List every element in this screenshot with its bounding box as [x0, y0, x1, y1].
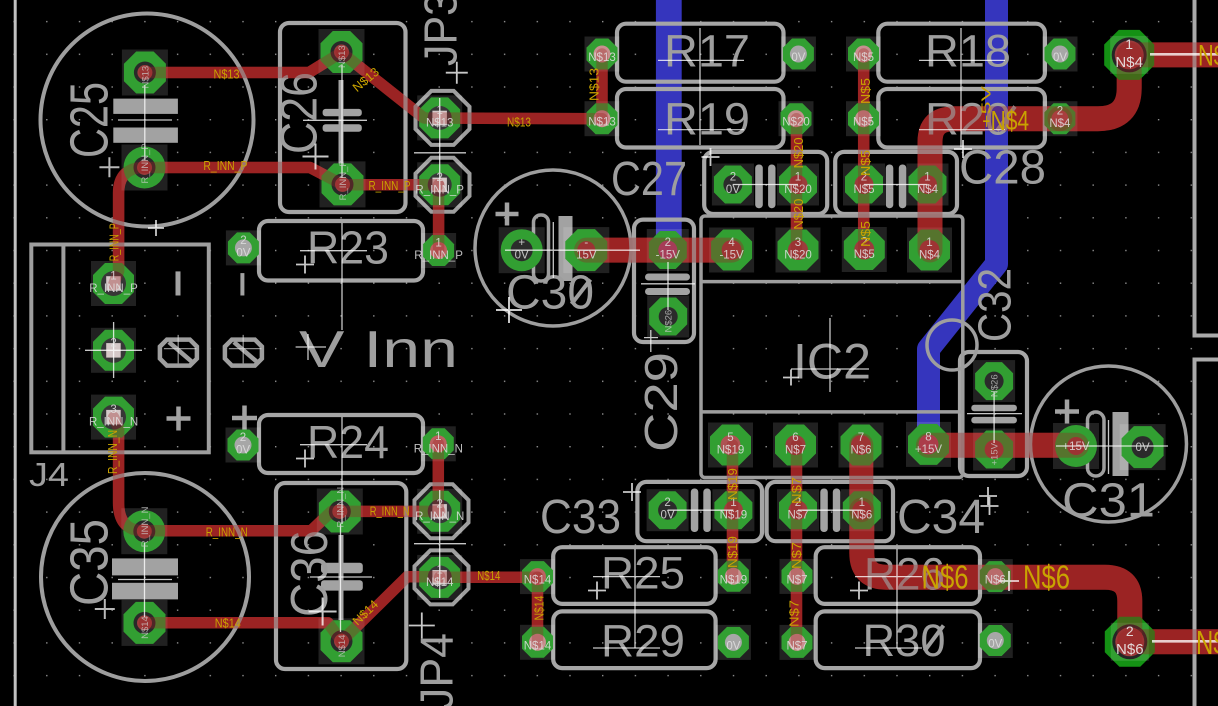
- svg-text:N$14: N$14: [337, 635, 348, 658]
- pad C28 pin2: [843, 164, 885, 206]
- R26 hairline: [855, 549, 922, 648]
- pad IC2 pin7: [839, 423, 884, 468]
- svg-text:N$13: N$13: [588, 52, 616, 64]
- pad R26 pin1: [780, 559, 815, 594]
- svg-text:C31: C31: [1062, 475, 1155, 528]
- svg-text:3: 3: [795, 237, 801, 249]
- svg-text:V Inn: V Inn: [299, 321, 458, 379]
- C33 origin cross: [623, 483, 641, 501]
- C30 text cross: [496, 297, 522, 323]
- JP3 pin2 octagon outline: [416, 158, 470, 212]
- resistor R17 outline: [617, 24, 784, 82]
- C26 crosshair: [303, 65, 367, 178]
- pad J4 pin1: [91, 261, 136, 306]
- C25 origin cross: [99, 157, 119, 177]
- pad C35 pin1: [121, 508, 167, 554]
- pad 2 N$6: [1105, 617, 1155, 667]
- svg-text:R_INN_N: R_INN_N: [140, 506, 151, 547]
- label pad J4.1: [89, 271, 138, 296]
- svg-text:N$6: N$6: [1196, 624, 1218, 661]
- svg-text:2: 2: [665, 237, 671, 249]
- slash of C30 zero: [572, 280, 591, 305]
- svg-text:N$4: N$4: [991, 105, 1030, 136]
- capacitor C29 outline: [634, 220, 694, 342]
- blue trace +5V to IC2.8: [929, 0, 997, 444]
- svg-text:N$13: N$13: [588, 117, 616, 129]
- R19 hairline: [658, 129, 744, 131]
- wire R_INN_P C25.2 to J4.1: [114, 168, 145, 285]
- svg-text:N$4: N$4: [917, 184, 939, 196]
- C33 capacitor symbol: [691, 489, 699, 533]
- pad C31 pin2: [1120, 424, 1166, 470]
- label pad C27.2: [726, 172, 740, 197]
- svg-text:N$6: N$6: [850, 445, 871, 457]
- pad C35 pin2: [122, 600, 168, 646]
- pad IC2 pin3: [776, 228, 821, 273]
- via R23 pin2: [226, 230, 261, 265]
- svg-text:2: 2: [240, 432, 246, 444]
- svg-text:0V: 0V: [1053, 52, 1067, 64]
- svg-text:1: 1: [110, 271, 116, 283]
- R30 hairline: [855, 647, 922, 649]
- svg-text:N$14: N$14: [533, 595, 547, 620]
- J4 origin cross: [148, 220, 164, 236]
- label pad C28.1: [917, 172, 939, 197]
- svg-text:N$14: N$14: [524, 575, 552, 587]
- label pad C31.2: [1136, 442, 1150, 454]
- label pad IC2.6: [785, 432, 806, 457]
- svg-text:N$6: N$6: [985, 575, 1006, 587]
- wire N$4 big pad to R20.2: [1060, 55, 1129, 119]
- C34 capacitor symbol: [820, 489, 828, 533]
- pad C34 pin2: [777, 489, 819, 531]
- svg-text:N$14: N$14: [426, 577, 454, 589]
- svg-text:N$19: N$19: [717, 445, 745, 457]
- svg-text:N$6: N$6: [1116, 641, 1144, 658]
- label pad C28.2: [853, 172, 874, 197]
- V Inn text cross: [296, 334, 326, 360]
- pad R26 pin2: [978, 559, 1013, 594]
- label pad R18.1: [853, 52, 874, 64]
- svg-text:R_INN_P: R_INN_P: [414, 250, 463, 262]
- svg-text:C35: C35: [60, 519, 120, 606]
- resistor R30 outline: [816, 611, 980, 668]
- pad C26 pin2: [320, 161, 366, 207]
- svg-text:C36: C36: [281, 530, 339, 617]
- resistor R24 outline: [259, 415, 423, 473]
- capacitor C34 outline: [767, 482, 893, 541]
- pad C32 pin1: [973, 429, 1015, 471]
- C34 origin cross: [979, 487, 997, 505]
- pad IC2 pin5: [708, 423, 753, 468]
- svg-text:R_INN_N: R_INN_N: [206, 526, 248, 540]
- wire R_INN_P JP3.2 to R23.1: [433, 185, 445, 251]
- J4 crosshair: [85, 322, 142, 378]
- label pad R17.1: [588, 52, 616, 64]
- svg-text:1: 1: [926, 237, 932, 249]
- blue trace to C29.2: [656, 0, 682, 250]
- svg-text:0V: 0V: [988, 639, 1002, 651]
- pad C36 pin1: [317, 489, 363, 535]
- pad IC2 pin4: [709, 228, 754, 273]
- label pad C34.1: [851, 497, 872, 522]
- pad C28 pin1: [907, 164, 949, 206]
- svg-text:1: 1: [436, 105, 442, 117]
- pad C25 pin1: [122, 50, 168, 96]
- capacitor C31 circle: [1031, 366, 1187, 522]
- svg-text:N$13: N$13: [426, 117, 454, 129]
- svg-text:5: 5: [727, 432, 733, 444]
- pad R23 pin1: [421, 233, 456, 268]
- svg-text:N$7: N$7: [786, 640, 807, 652]
- svg-text:R19: R19: [664, 94, 750, 145]
- svg-text:1: 1: [924, 172, 930, 184]
- label pad JP3.1: [426, 105, 454, 129]
- C28 capacitor symbol: [886, 165, 894, 209]
- connector J4 inner line: [61, 246, 65, 451]
- R25 origin cross: [588, 582, 606, 600]
- slash of R20 zero: [997, 107, 1015, 131]
- C27 origin cross: [702, 148, 720, 166]
- svg-text:N$5: N$5: [859, 150, 873, 176]
- label pad J4.2: [110, 337, 116, 349]
- resistor R26 outline: [816, 547, 980, 604]
- svg-text:C25: C25: [60, 82, 120, 158]
- svg-text:C34: C34: [897, 491, 985, 544]
- svg-text:N$7: N$7: [790, 477, 804, 504]
- svg-text:N$4: N$4: [919, 250, 941, 262]
- R24 origin cross: [296, 450, 314, 468]
- svg-text:0V: 0V: [1136, 442, 1150, 454]
- label pad IC2.1: [919, 237, 941, 262]
- wire N$13 C26.1 to R19.1: [342, 53, 603, 119]
- silk circle near IC2 pin8: [927, 320, 977, 370]
- pad R17 pin2: [781, 37, 816, 72]
- label pad IC2.3: [784, 237, 812, 262]
- wire +15V IC2.8 to C31.1: [929, 433, 1077, 458]
- R25 hairline: [593, 549, 660, 648]
- label pad IC2.7: [850, 432, 871, 457]
- svg-text:C29: C29: [635, 352, 687, 452]
- wire N$19 IC2.5 to R25.2: [727, 445, 739, 576]
- pad R19 pin2: [779, 101, 814, 136]
- svg-text:C32: C32: [969, 268, 1021, 342]
- pad JP3 pin2: [417, 162, 462, 207]
- JP4 pin2 octagon outline: [415, 484, 469, 538]
- svg-text:N$4: N$4: [1198, 40, 1218, 73]
- board frame right edge with gap: [1195, 0, 1218, 706]
- svg-text:4: 4: [728, 237, 735, 249]
- label pad R29.2: [726, 640, 740, 652]
- C29 lower crosshair: [644, 330, 658, 352]
- svg-text:N$7: N$7: [790, 542, 804, 569]
- svg-text:N$4: N$4: [1049, 118, 1071, 130]
- svg-text:2: 2: [436, 498, 442, 510]
- svg-text:N$14: N$14: [524, 640, 552, 652]
- svg-text:N$20: N$20: [784, 184, 812, 196]
- svg-text:R_INN_N: R_INN_N: [89, 417, 138, 429]
- R17 hairline: [658, 28, 744, 145]
- wire N$5 R18.1 to IC2.2: [858, 54, 870, 250]
- pad IC2 pin2: [842, 227, 887, 272]
- svg-text:N$7: N$7: [786, 574, 807, 586]
- wire N$7 IC2.6 to R30.1: [791, 445, 803, 642]
- label pad C30.1: [515, 237, 529, 262]
- svg-text:+15V: +15V: [915, 444, 943, 456]
- svg-text:R_INN_N: R_INN_N: [106, 430, 120, 474]
- svg-text:R_INN_P: R_INN_P: [338, 160, 349, 200]
- pad R18 pin2: [1043, 37, 1078, 72]
- label pad C33.1: [720, 497, 748, 522]
- pad C27 pin2: [712, 164, 754, 206]
- pad C33 pin2: [647, 489, 689, 531]
- svg-text:C28: C28: [959, 142, 1046, 195]
- slash of R30 zero: [925, 626, 944, 652]
- wire N$4 big pad to edge: [1129, 42, 1218, 67]
- label pad C33.2: [661, 497, 675, 522]
- capacitor C32 outline: [960, 352, 1027, 476]
- label pad 2 N$6: [1116, 623, 1144, 658]
- svg-text:C26: C26: [271, 72, 329, 154]
- svg-text:N$26: N$26: [664, 310, 675, 333]
- wire R_INN_N J4.3 to JP4.2: [114, 417, 440, 531]
- label pad C34.2: [787, 497, 808, 522]
- svg-text:2: 2: [1057, 106, 1063, 118]
- svg-text:N$13: N$13: [507, 116, 531, 130]
- svg-text:N$6: N$6: [922, 559, 969, 596]
- svg-text:C33: C33: [540, 491, 621, 544]
- svg-text:N$4: N$4: [1115, 54, 1143, 71]
- svg-text:2: 2: [240, 235, 246, 247]
- plus mark: [1055, 400, 1079, 424]
- pad C29 pin2: [647, 229, 689, 271]
- label pad R26.2: [985, 575, 1006, 587]
- IC2 crosshair: [791, 318, 869, 392]
- svg-text:N$5: N$5: [859, 221, 873, 247]
- pad R29 pin1: [520, 625, 555, 660]
- C36 capacitor symbol: [339, 535, 344, 620]
- R23 hairline: [300, 223, 367, 330]
- wire N$14 JP4.1 to R25.1: [440, 571, 538, 583]
- svg-text:1: 1: [435, 431, 441, 443]
- C32 capacitor symbol: [971, 405, 1017, 412]
- svg-text:8: 8: [925, 431, 931, 443]
- R23 origin cross: [296, 256, 314, 274]
- IC2 outline: [701, 216, 963, 478]
- C31 capacitor symbol: [1088, 412, 1105, 476]
- label pad R24.1: [414, 431, 463, 456]
- svg-text:IC2: IC2: [793, 334, 871, 390]
- svg-text:R_INN_N: R_INN_N: [414, 443, 463, 455]
- svg-text:0V: 0V: [726, 184, 740, 196]
- R24 hairline: [300, 417, 367, 524]
- label pad R25.1: [524, 575, 552, 587]
- C32 crosshair: [967, 392, 1022, 443]
- wire -15V C30.2 to IC2.4: [587, 238, 732, 263]
- R20 hairline: [919, 129, 1005, 131]
- capacitor C36 outline: [276, 483, 406, 669]
- label pad C30.2: [576, 237, 597, 262]
- C29 capacitor symbol: [645, 274, 690, 281]
- pad C26 pin1: [319, 29, 365, 75]
- pad R25 pin1: [520, 559, 555, 594]
- svg-text:N$7: N$7: [787, 510, 808, 522]
- svg-text:0V: 0V: [726, 640, 740, 652]
- C25 crosshair: [118, 85, 172, 160]
- label pad JP4.2: [415, 498, 464, 523]
- white line through N$6 trace: [1152, 640, 1218, 643]
- svg-text:N$7: N$7: [788, 600, 802, 627]
- svg-text:3: 3: [110, 404, 116, 416]
- label pad R25.2: [720, 574, 748, 586]
- capacitor C28 outline: [835, 152, 957, 214]
- svg-text:R17: R17: [664, 26, 750, 77]
- svg-text:R_INN_P: R_INN_P: [89, 283, 138, 295]
- label pad JP4.1: [426, 564, 454, 589]
- resistor R19 outline: [617, 89, 784, 148]
- svg-text:C30: C30: [506, 267, 594, 320]
- wire N$14 C36.2 to JP4.1: [342, 577, 440, 642]
- pad IC2 pin6: [773, 423, 818, 468]
- pad R20 pin1: [846, 101, 881, 136]
- JP4 crosshair: [414, 490, 466, 598]
- svg-text:JP3: JP3: [415, 0, 467, 66]
- wire N$4 R20.2 to IC2.1: [930, 119, 1060, 250]
- svg-text:1: 1: [1125, 36, 1133, 52]
- pad JP3 pin1: [417, 95, 462, 140]
- wire R_INN_P C25.2 to JP3.2: [145, 168, 439, 185]
- octagon-slash symbol 2: [225, 335, 262, 366]
- C26 capacitor symbol: [339, 80, 344, 168]
- svg-text:N$14: N$14: [215, 617, 241, 631]
- svg-text:N$19: N$19: [720, 574, 748, 586]
- wire N$14 R25.1 to R29.1: [532, 577, 544, 642]
- wire N$6 big pad 2 to edge: [1130, 629, 1218, 654]
- svg-text:N$13: N$13: [588, 68, 602, 101]
- svg-text:1: 1: [435, 238, 441, 250]
- C33 white line: [668, 509, 734, 511]
- svg-text:+: +: [518, 237, 525, 249]
- wire N$13 C25.1 to C26.1: [145, 53, 342, 73]
- svg-text:15V: 15V: [576, 250, 597, 262]
- IC2 origin cross: [783, 370, 799, 386]
- R26 origin cross: [850, 582, 868, 600]
- svg-text:N$19: N$19: [726, 536, 740, 568]
- C32 origin cross: [981, 497, 999, 515]
- label pad R20.2: [1049, 106, 1071, 131]
- pad C27 pin1: [777, 164, 819, 206]
- JP3 pin1 octagon outline: [416, 91, 470, 145]
- R29 hairline: [593, 647, 660, 649]
- svg-text:N$13: N$13: [337, 45, 348, 68]
- svg-text:-15V: -15V: [719, 250, 744, 262]
- svg-text:1: 1: [436, 564, 442, 576]
- pad R30 pin2: [978, 623, 1013, 658]
- svg-text:R23: R23: [307, 222, 389, 274]
- svg-text:R_INN_N: R_INN_N: [335, 487, 346, 528]
- svg-text:R_INN_P: R_INN_P: [140, 143, 151, 183]
- via R24 pin2: [226, 428, 261, 463]
- capacitor C35 circle: [41, 473, 249, 681]
- C26 text cross: [303, 144, 329, 170]
- svg-text:+15V: +15V: [990, 442, 1001, 465]
- pad JP4 pin1: [417, 555, 462, 600]
- svg-text:2: 2: [436, 172, 442, 184]
- svg-text:0V: 0V: [515, 250, 529, 262]
- IC2 lower inner line: [701, 410, 963, 414]
- C35 origin cross: [95, 599, 115, 619]
- wire N$20 R19.2 to IC2.3: [791, 119, 803, 250]
- svg-text:R_INN_P: R_INN_P: [369, 179, 411, 193]
- svg-text:R_INN_P: R_INN_P: [415, 184, 464, 196]
- plus mark: [232, 406, 257, 431]
- label pad R29.1: [524, 640, 552, 652]
- svg-text:N$6: N$6: [1023, 559, 1070, 596]
- pad R17 pin1: [585, 37, 620, 72]
- svg-text:J4: J4: [29, 456, 69, 493]
- copper blend re-pass over pads: [114, 53, 1218, 643]
- J4 minus bar symbol: [176, 271, 181, 295]
- resistor R23 outline: [259, 221, 423, 281]
- svg-text:0V: 0V: [236, 445, 250, 457]
- svg-text:N$19: N$19: [726, 468, 740, 500]
- C36 crosshair: [310, 524, 372, 632]
- C27 white line: [733, 184, 798, 186]
- label pad R17.2: [791, 52, 805, 64]
- wire N$14 C35.2 to C36.2: [145, 623, 342, 642]
- pad C30 pin1: [499, 227, 545, 273]
- svg-text:R18: R18: [925, 26, 1011, 77]
- plus mark: [167, 407, 191, 431]
- pad IC2 pin8: [906, 422, 951, 467]
- svg-text:R29: R29: [601, 616, 685, 667]
- label pad R24.2: [236, 432, 250, 457]
- capacitor C27 outline: [704, 152, 827, 214]
- svg-text:N$20: N$20: [784, 250, 812, 262]
- svg-text:N$14: N$14: [140, 616, 151, 639]
- pad C31 pin1: [1053, 423, 1099, 469]
- svg-text:1: 1: [795, 172, 801, 184]
- label pad C31.1: [1062, 441, 1090, 453]
- C31 lower cross: [999, 571, 1019, 591]
- label pad C27.1: [784, 172, 812, 197]
- svg-text:N$13: N$13: [140, 66, 151, 89]
- svg-text:N$5: N$5: [854, 249, 875, 261]
- label pad JP3.2: [415, 172, 464, 197]
- svg-text:N$6: N$6: [851, 510, 872, 522]
- svg-text:N$5: N$5: [853, 52, 874, 64]
- pad R18 pin1: [846, 37, 881, 72]
- board frame left edge: [14, 0, 17, 706]
- svg-text:R24: R24: [307, 416, 389, 468]
- svg-text:2: 2: [664, 497, 670, 509]
- C30 crosshair: [505, 222, 640, 278]
- C31 minus mark: [1137, 436, 1151, 440]
- pad C34 pin1: [841, 489, 883, 531]
- minus bar near via R23: [240, 273, 244, 295]
- pad R29 pin2: [716, 625, 751, 660]
- label pad R26.1: [786, 574, 807, 586]
- resistor R20 outline: [878, 89, 1045, 148]
- svg-text:2: 2: [730, 172, 736, 184]
- svg-text:0V: 0V: [236, 247, 250, 259]
- pad R19 pin1: [585, 101, 620, 136]
- pad R20 pin2: [1042, 101, 1077, 136]
- resistor R25 outline: [553, 547, 715, 604]
- label pad R23.1: [414, 238, 463, 263]
- JP3 crosshair: [414, 98, 466, 205]
- capacitor C25 circle: [41, 14, 254, 227]
